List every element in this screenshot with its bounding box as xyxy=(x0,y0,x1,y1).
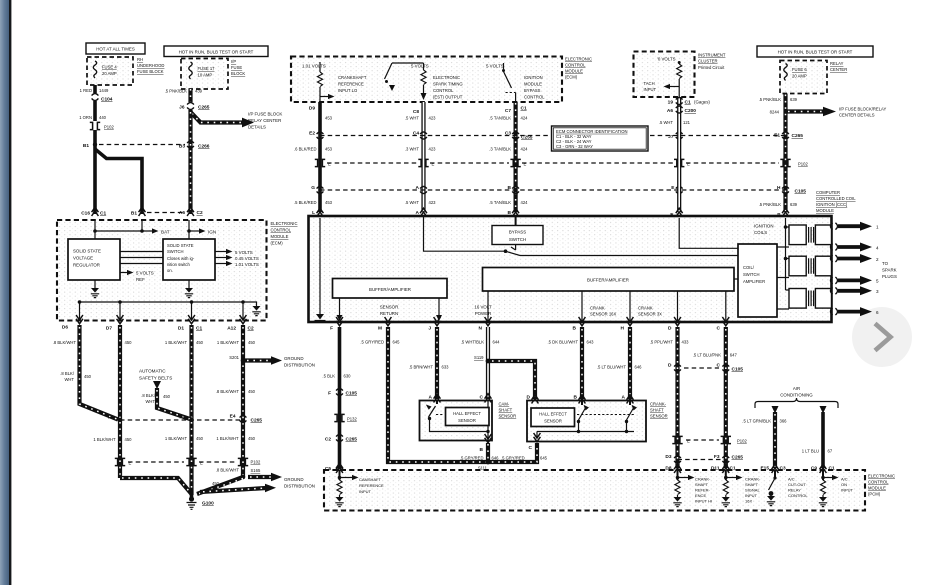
terminals C16 C1 B1 A6 C2 into ECM xyxy=(81,207,203,216)
label FUSE 6 20 AMP xyxy=(792,67,807,79)
svg-text:RELAY: RELAY xyxy=(830,61,844,66)
svg-text:C1: C1 xyxy=(685,100,691,106)
terminal P into mid ECM xyxy=(777,208,789,218)
amplifier output links to coils xyxy=(777,247,789,309)
svg-text:.5 GRY/RED: .5 GRY/RED xyxy=(460,456,484,461)
svg-text:P102: P102 xyxy=(737,439,747,444)
svg-text:.5 WHT: .5 WHT xyxy=(659,120,674,125)
wire D6 .8 BLK/WHT 450 xyxy=(53,325,118,420)
svg-text:CRANK-: CRANK- xyxy=(695,477,711,482)
wire A12/C2 1 BLK/WHT 450 xyxy=(217,325,256,477)
svg-text:0.45 VOLTS: 0.45 VOLTS xyxy=(235,256,259,261)
svg-text:C266: C266 xyxy=(198,144,210,150)
resistor (tach feed) xyxy=(677,61,682,97)
svg-text:.5 PPL/WHT: .5 PPL/WHT xyxy=(650,340,674,345)
wire N .5 WHT/BLK 644 xyxy=(461,327,500,399)
fuse block dashed box (FUSE 4) xyxy=(87,57,133,85)
svg-text:FUSE 4: FUSE 4 xyxy=(102,65,117,70)
svg-text:S119: S119 xyxy=(474,355,484,360)
svg-text:COMPUTER: COMPUTER xyxy=(816,190,840,195)
svg-text:G: G xyxy=(311,185,315,191)
svg-text:CONTROLLED COIL: CONTROLLED COIL xyxy=(816,196,856,201)
svg-text:HOT IN RUN, BULB TEST OR START: HOT IN RUN, BULB TEST OR START xyxy=(778,50,853,55)
svg-text:1 BLK/WHT: 1 BLK/WHT xyxy=(165,340,188,345)
links regulator to switch xyxy=(120,252,163,264)
svg-text:CONTROL: CONTROL xyxy=(433,88,454,93)
wire branch B1 to terminal B1 xyxy=(95,149,142,214)
node B1 xyxy=(83,130,97,149)
svg-text:(Gages): (Gages) xyxy=(694,100,710,105)
box SOLID STATE SWITCH xyxy=(163,239,215,280)
svg-text:DISTRIBUTION: DISTRIBUTION xyxy=(284,363,315,368)
svg-text:PLUGS: PLUGS xyxy=(882,274,897,279)
wire 1 ORN 440 xyxy=(79,101,106,121)
svg-text:C2: C2 xyxy=(248,326,254,332)
cam sensor terminals A C xyxy=(429,394,492,403)
svg-text:424: 424 xyxy=(521,116,529,121)
svg-text:HOT IN RUN, BULB TEST OR START: HOT IN RUN, BULB TEST OR START xyxy=(179,49,254,54)
svg-text:SENSOR: SENSOR xyxy=(650,414,668,419)
crankshaft signal input 16x circuit xyxy=(722,470,761,507)
svg-text:.5 LT BLU/WHT: .5 LT BLU/WHT xyxy=(597,365,627,370)
svg-text:SENSOR: SENSOR xyxy=(544,419,562,424)
label ELECTRONIC CONTROL MODULE ECM (between boxes) xyxy=(271,221,298,246)
svg-text:423: 423 xyxy=(429,147,437,152)
svg-text:424: 424 xyxy=(521,147,529,152)
svg-text:AIR: AIR xyxy=(793,386,800,391)
buffer output wires to F and J xyxy=(337,298,443,321)
svg-text:CONTROL: CONTROL xyxy=(524,95,545,100)
svg-text:.5 DK BLU/WHT: .5 DK BLU/WHT xyxy=(548,340,579,345)
svg-text:.8 BLK/: .8 BLK/ xyxy=(141,393,156,398)
connector A6 C200 xyxy=(667,106,696,114)
box SOLID STATE VOLTAGE REGULATOR xyxy=(68,239,120,280)
svg-text:P102: P102 xyxy=(798,162,808,167)
svg-text:20 AMP: 20 AMP xyxy=(792,74,807,79)
svg-text:AMPLIFIER: AMPLIFIER xyxy=(743,279,765,284)
svg-text:1 LT BLU: 1 LT BLU xyxy=(802,449,819,454)
svg-text:(EST) OUTPUT: (EST) OUTPUT xyxy=(433,95,463,100)
svg-text:1.01 VOLTS: 1.01 VOLTS xyxy=(302,64,326,69)
svg-text:643: 643 xyxy=(587,340,595,345)
svg-text:C105: C105 xyxy=(732,367,744,373)
wire B1 into BAT node xyxy=(141,220,143,231)
connector J6 C265 xyxy=(179,103,210,111)
svg-text:E4: E4 xyxy=(230,414,236,420)
svg-text:TACH: TACH xyxy=(644,81,655,86)
wire D1 1 BLK/WHT 450 xyxy=(165,325,204,420)
svg-text:ELECTRONIC: ELECTRONIC xyxy=(868,474,895,479)
wire labels row .6 BLK/RED .3 WHT .3 TAN/BLK xyxy=(294,147,528,152)
svg-text:C265: C265 xyxy=(346,437,358,443)
dashed link B1 to A6 xyxy=(147,212,183,214)
label ELECTRONIC CONTROL MODULE PCM (right) xyxy=(868,474,895,497)
svg-text:.5 TAN/BLK: .5 TAN/BLK xyxy=(489,116,511,121)
svg-text:VOLTAGE: VOLTAGE xyxy=(73,256,93,261)
ECM top dashed box (crank ref / EST / bypass) xyxy=(291,57,562,103)
svg-text:D: D xyxy=(668,363,672,369)
svg-text:433: 433 xyxy=(682,340,690,345)
bus stub ground right xyxy=(243,302,261,316)
IGN feed line xyxy=(187,220,216,239)
label TO SPARK PLUGS xyxy=(882,261,897,279)
connector F C105 xyxy=(328,389,357,397)
svg-text:C200: C200 xyxy=(685,108,697,114)
svg-text:I/P FUSE BLOCK: I/P FUSE BLOCK xyxy=(248,112,282,117)
svg-text:.5 LT GRN/BLK: .5 LT GRN/BLK xyxy=(742,419,771,424)
instrument cluster dashed box xyxy=(634,52,695,98)
svg-text:D7: D7 xyxy=(106,326,112,332)
ignition coil 1 xyxy=(789,225,832,245)
svg-text:C3 - GRN - 32 WAY: C3 - GRN - 32 WAY xyxy=(556,144,593,149)
svg-text:SENSOR: SENSOR xyxy=(499,414,517,419)
wire C200 column (.5 WHT 121) xyxy=(677,97,681,212)
svg-text:RELAY CENTER: RELAY CENTER xyxy=(248,118,281,123)
svg-text:.8 BLK/: .8 BLK/ xyxy=(60,371,75,376)
ground distribution arrow (S165) xyxy=(248,473,315,489)
svg-text:H: H xyxy=(777,185,781,191)
switch S-BYPASS xyxy=(502,63,516,102)
terminal C5 xyxy=(325,463,343,472)
svg-text:HALL EFFECT: HALL EFFECT xyxy=(453,411,481,416)
svg-text:BLOCK: BLOCK xyxy=(231,71,245,76)
label .5 PNK/BLK 639 (lower) xyxy=(759,202,798,207)
wire E to amplifier xyxy=(679,218,738,248)
svg-text:5 VOLTS: 5 VOLTS xyxy=(136,271,154,276)
svg-text:CRANKSHAFT: CRANKSHAFT xyxy=(338,75,367,80)
svg-text:424: 424 xyxy=(521,200,529,205)
svg-text:CAMSHAFT: CAMSHAFT xyxy=(359,477,382,482)
svg-text:on.: on. xyxy=(167,268,173,273)
camshaft reference input circuit xyxy=(335,470,384,507)
spark plug output 5 xyxy=(831,276,880,285)
svg-text:INPUT LO: INPUT LO xyxy=(338,88,358,93)
label RELAY CENTER xyxy=(830,61,847,72)
svg-text:F3: F3 xyxy=(714,454,720,460)
svg-text:5 VOLTS: 5 VOLTS xyxy=(411,64,429,69)
svg-text:COILS: COILS xyxy=(754,230,767,235)
wire E15 .5 LT GRN/BLK 366 xyxy=(742,406,787,468)
wire A to switch node xyxy=(424,216,508,253)
svg-text:H: H xyxy=(621,326,625,332)
label INSTRUMENT CLUSTER Printed Circuit xyxy=(698,53,726,71)
svg-text:450: 450 xyxy=(125,340,133,345)
wire labels row .5 BLK/RED .5 WHT .5 TAN/BLK xyxy=(294,200,528,205)
internal partitions crank sensor bays xyxy=(582,292,726,322)
svg-text:SWITCH: SWITCH xyxy=(509,237,526,242)
cam sensor switch internals xyxy=(426,401,490,440)
label .5 GRY/RED 645 (right) xyxy=(501,456,548,461)
svg-text:BUFFER/AMPLIFIER: BUFFER/AMPLIFIER xyxy=(369,287,411,292)
left blue sidebar xyxy=(0,0,9,585)
label IGNITION MODULE BYPASS CONTROL xyxy=(524,75,545,100)
crank sensor internals xyxy=(537,401,637,439)
crankshaft reference input hi circuit xyxy=(673,470,712,507)
svg-text:121: 121 xyxy=(683,120,691,125)
svg-text:HALL EFFECT: HALL EFFECT xyxy=(539,412,567,417)
svg-text:A: A xyxy=(416,185,420,191)
svg-text:.5 PNK/BLK: .5 PNK/BLK xyxy=(165,89,188,94)
spark plug output 2 xyxy=(831,254,880,263)
wire J .5 BRN/WHT 633 xyxy=(409,327,449,399)
svg-text:nition switch: nition switch xyxy=(167,262,190,267)
ground distribution arrow (G100 diagonal) xyxy=(200,484,276,493)
spark plug output 6 xyxy=(831,307,880,316)
box HOT IN RUN BULB TEST OR START xyxy=(164,46,268,57)
svg-text:.5 WHT/BLK: .5 WHT/BLK xyxy=(461,340,484,345)
svg-text:C1: C1 xyxy=(521,106,527,112)
mid ECM solid box (CCC ignition module) xyxy=(309,216,832,322)
switch S-EST xyxy=(385,63,424,91)
svg-text:(ECM): (ECM) xyxy=(271,241,284,246)
terminals D6 D7 D1 C1 A12 C2 xyxy=(62,315,254,332)
svg-text:639: 639 xyxy=(790,97,798,102)
terminal E into mid ECM xyxy=(670,208,682,218)
svg-text:453: 453 xyxy=(325,116,333,121)
svg-text:SENSOR 16X: SENSOR 16X xyxy=(590,312,617,317)
fuse block dashed box (FUSE 17) xyxy=(181,59,228,90)
svg-text:2: 2 xyxy=(876,257,879,262)
svg-text:1 BLK/WHT: 1 BLK/WHT xyxy=(93,437,116,442)
svg-text:E: E xyxy=(200,461,203,466)
ECM connector identification box xyxy=(552,126,649,151)
label IGNITION COILS xyxy=(754,224,774,236)
svg-text:67: 67 xyxy=(828,449,833,454)
svg-text:3: 3 xyxy=(876,289,879,294)
svg-text:MODULE: MODULE xyxy=(868,486,886,491)
label RH UNDERHOOD FUSE BLOCK xyxy=(137,57,164,74)
svg-text:HOT AT ALL TIMES: HOT AT ALL TIMES xyxy=(96,47,135,52)
svg-text:CONTROL: CONTROL xyxy=(271,228,292,233)
svg-text:646: 646 xyxy=(492,456,500,461)
svg-text:423: 423 xyxy=(429,200,437,205)
ECM voltage regulator dashed box xyxy=(57,220,267,321)
svg-text:19: 19 xyxy=(668,100,674,106)
svg-text:REGULATOR: REGULATOR xyxy=(73,263,100,268)
svg-text:CRANK-: CRANK- xyxy=(650,402,667,407)
label CAM-SHAFT SENSOR xyxy=(499,402,517,419)
label ID FUSE BLOCK xyxy=(231,59,245,76)
svg-text:GROUND: GROUND xyxy=(284,356,304,361)
inline connector row P102 (right) xyxy=(672,436,747,443)
wire F .5 BLK 630 xyxy=(322,327,351,468)
ground G100 xyxy=(187,493,215,509)
svg-text:1.01 VOLTS: 1.01 VOLTS xyxy=(235,262,259,267)
bypass signal line to amplifier xyxy=(520,255,738,257)
svg-text:644: 644 xyxy=(493,340,501,345)
svg-text:CAM-: CAM- xyxy=(499,402,510,407)
svg-text:450: 450 xyxy=(248,436,256,441)
svg-text:A: A xyxy=(622,395,626,401)
svg-text:630: 630 xyxy=(344,374,352,379)
svg-text:CONDITIONING: CONDITIONING xyxy=(780,393,813,398)
automatic safety belts feed xyxy=(139,369,192,420)
svg-text:SHAFT: SHAFT xyxy=(650,408,664,413)
svg-text:1 BLK/WHT: 1 BLK/WHT xyxy=(216,436,239,441)
inline connector row P102 (mid) xyxy=(315,159,809,166)
svg-text:639: 639 xyxy=(790,202,798,207)
svg-text:INPUT: INPUT xyxy=(359,489,372,494)
svg-text:SWITCH: SWITCH xyxy=(167,249,184,254)
crankshaft hall effect sensor box xyxy=(527,401,646,442)
svg-text:GROUND: GROUND xyxy=(284,477,304,482)
svg-text:.3 WHT: .3 WHT xyxy=(405,147,420,152)
ignition coil 3 xyxy=(789,289,832,309)
wires down to P102 row xyxy=(120,420,192,495)
connector C2 C265 xyxy=(325,435,357,443)
svg-text:440: 440 xyxy=(99,115,107,120)
arrows 5 VOLTS / 0.45 VOLTS / 1.01 VOLTS xyxy=(215,249,259,267)
svg-text:D3: D3 xyxy=(665,454,671,460)
wire C9 1 LT BLU 67 xyxy=(802,406,833,468)
svg-text:S165: S165 xyxy=(251,468,261,473)
svg-text:ELECTRONIC: ELECTRONIC xyxy=(433,75,460,80)
svg-text:423: 423 xyxy=(429,116,437,121)
cam sensor B output wire xyxy=(480,434,492,462)
svg-text:CRANK: CRANK xyxy=(590,306,605,311)
terminals into bottom ECM xyxy=(336,464,826,473)
svg-text:SIGNAL: SIGNAL xyxy=(745,488,760,493)
svg-text:F: F xyxy=(328,391,331,397)
spark plug output 3 xyxy=(831,286,880,295)
buffer/amplifier box (sensor) xyxy=(333,279,448,299)
svg-text:SHAFT: SHAFT xyxy=(745,482,759,487)
svg-text:CENTER: CENTER xyxy=(830,67,847,72)
svg-text:.5 GRY/RED: .5 GRY/RED xyxy=(501,456,525,461)
svg-text:BYPASS: BYPASS xyxy=(524,88,541,93)
internal ground bus xyxy=(78,300,245,304)
svg-text:G100: G100 xyxy=(202,501,214,507)
svg-text:DISTRIBUTION: DISTRIBUTION xyxy=(284,484,315,489)
node S111 xyxy=(478,456,499,471)
wire B1 down to C16 xyxy=(93,145,97,215)
svg-text:CONTROL: CONTROL xyxy=(565,63,586,68)
svg-text:IGNITION [CCC]: IGNITION [CCC] xyxy=(816,202,847,207)
svg-text:IGNITION: IGNITION xyxy=(754,224,774,229)
svg-text:D1: D1 xyxy=(178,326,184,332)
svg-text:INPUT: INPUT xyxy=(745,493,758,498)
wire M .5 GRY/RED 645 + bus to crank sensor xyxy=(360,327,537,462)
inline connector row P102 (lower left) xyxy=(115,458,261,465)
svg-text:450: 450 xyxy=(196,436,204,441)
dashed link B1 to B3 xyxy=(99,144,185,146)
svg-text:C255: C255 xyxy=(521,135,533,141)
carousel next button xyxy=(852,307,912,367)
node S165 xyxy=(212,468,261,487)
svg-text:SPARK TIMING: SPARK TIMING xyxy=(433,82,463,87)
svg-text:IGN: IGN xyxy=(208,230,216,235)
svg-text:SHAFT: SHAFT xyxy=(695,482,709,487)
svg-text:E: E xyxy=(328,162,331,167)
svg-text:ELECTRONIC: ELECTRONIC xyxy=(271,221,298,226)
svg-text:C265: C265 xyxy=(198,105,210,111)
camshaft hall effect sensor box xyxy=(420,401,493,441)
crank sensor C output xyxy=(529,433,541,451)
svg-text:J7: J7 xyxy=(668,134,674,140)
bypass switch arm xyxy=(506,245,521,256)
arrow branch to I/P fuse block details xyxy=(191,112,283,130)
svg-text:MODULE: MODULE xyxy=(565,69,583,74)
svg-text:CLUSTER: CLUSTER xyxy=(698,59,718,64)
bypass switch box xyxy=(492,226,543,245)
label CRANK SENSOR 3X xyxy=(638,306,662,317)
fuse F4 symbol xyxy=(93,61,96,78)
svg-text:INPUT: INPUT xyxy=(644,87,657,92)
wire D .5 PPL/WHT 433 xyxy=(650,327,689,468)
svg-text:INSTRUMENT: INSTRUMENT xyxy=(698,53,726,58)
svg-text:C1: C1 xyxy=(196,326,202,332)
svg-text:.5 BRN/WHT: .5 BRN/WHT xyxy=(409,365,434,370)
svg-text:450: 450 xyxy=(163,394,171,399)
svg-text:N: N xyxy=(479,326,483,332)
svg-text:F6: F6 xyxy=(108,415,114,421)
node B3 C266 xyxy=(179,110,210,214)
svg-text:16 VOLT: 16 VOLT xyxy=(474,305,492,310)
inline connector P102 xyxy=(90,122,115,129)
svg-text:C: C xyxy=(480,395,484,401)
label CRANKSHAFT REFERENCE INPUT LO xyxy=(338,75,367,93)
svg-text:FUSE 17: FUSE 17 xyxy=(198,66,216,71)
svg-text:J: J xyxy=(428,326,431,332)
svg-text:SAFETY BELTS: SAFETY BELTS xyxy=(139,376,172,381)
svg-text:C: C xyxy=(717,363,721,369)
svg-text:E1: E1 xyxy=(774,133,780,139)
wire D7 450 xyxy=(120,325,132,420)
svg-text:RH: RH xyxy=(137,57,143,62)
node S119 branch to D xyxy=(474,355,535,399)
svg-text:SENSOR 3X: SENSOR 3X xyxy=(638,312,662,317)
label FUSE 4 20 AMP xyxy=(102,65,117,77)
svg-text:A: A xyxy=(429,395,433,401)
svg-text:WHT: WHT xyxy=(64,377,74,382)
svg-text:B: B xyxy=(480,447,484,453)
svg-text:REF: REF xyxy=(136,277,145,282)
box HOT AT ALL TIMES xyxy=(86,43,145,54)
svg-text:.8 BLK/WHT: .8 BLK/WHT xyxy=(53,340,77,345)
air conditioning brace xyxy=(755,386,838,408)
svg-text:IGNITION: IGNITION xyxy=(524,75,543,80)
svg-text:450: 450 xyxy=(248,389,256,394)
svg-text:C2: C2 xyxy=(325,437,331,443)
a/c cut-out relay control circuit xyxy=(767,470,809,506)
svg-text:E: E xyxy=(687,439,690,444)
ignition coil 2 xyxy=(789,256,832,276)
label .8 BLK/WHT 450 (A12 wire) xyxy=(216,389,256,394)
wire L to internal ground xyxy=(315,218,326,321)
svg-text:DETAILS: DETAILS xyxy=(248,125,266,130)
label COMPUTER CONTROLLED COIL IGNITION CCC MODULE xyxy=(816,190,856,213)
wire D9 column (.5 BLK/RED 453) xyxy=(309,102,333,212)
svg-text:CRANK: CRANK xyxy=(638,306,653,311)
svg-text:C265: C265 xyxy=(251,418,263,424)
svg-text:E: E xyxy=(524,162,527,167)
svg-text:633: 633 xyxy=(442,365,450,370)
svg-text:REFERENCE: REFERENCE xyxy=(338,82,364,87)
svg-text:1: 1 xyxy=(876,225,879,230)
bottom entry labels D8 D11 C1 xyxy=(665,466,736,472)
svg-text:C2: C2 xyxy=(197,210,203,216)
label CRANK SENSOR 16X xyxy=(590,306,617,317)
wire P ignition feed xyxy=(784,218,789,290)
svg-text:SENSOR: SENSOR xyxy=(380,305,399,310)
svg-text:ENCE: ENCE xyxy=(695,493,706,498)
svg-text:.5 GRY/RED: .5 GRY/RED xyxy=(360,340,384,345)
svg-text:M: M xyxy=(378,326,382,332)
wire N to EST box xyxy=(487,291,489,321)
wire .5 PNK/BLK 639 (upper) xyxy=(759,94,798,213)
svg-text:20 AMP: 20 AMP xyxy=(102,71,117,76)
svg-text:CONTROL: CONTROL xyxy=(868,480,889,485)
